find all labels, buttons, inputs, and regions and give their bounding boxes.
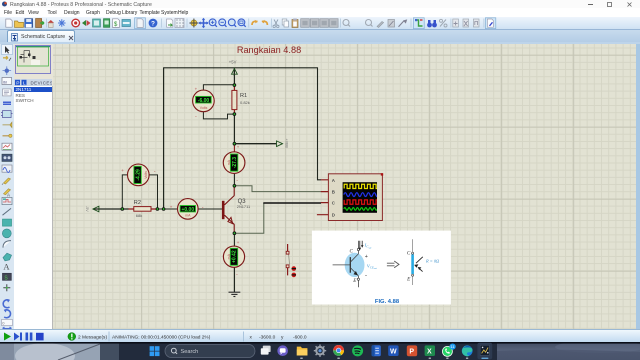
svg-text:-: - bbox=[236, 272, 238, 278]
svg-text:?: ? bbox=[151, 21, 155, 28]
svg-text:68k: 68k bbox=[136, 213, 142, 218]
svg-text:Rangkaian 4.88: Rangkaian 4.88 bbox=[237, 45, 301, 55]
svg-text:+: + bbox=[365, 254, 368, 260]
svg-text:-: - bbox=[195, 113, 197, 119]
svg-text:P: P bbox=[409, 349, 414, 356]
wire left drop to R2 row bbox=[163, 67, 165, 209]
inset implies arrow bbox=[387, 261, 399, 268]
wire voltmeter VM1 minus to R1 bottom node bbox=[203, 111, 234, 119]
svg-text:0.82k: 0.82k bbox=[240, 100, 250, 105]
terminal arrow VBB (right) bbox=[277, 139, 289, 149]
svg-text:A: A bbox=[7, 193, 10, 198]
svg-text:+: + bbox=[195, 87, 198, 92]
wire voltmeter VM2 left branch bbox=[122, 175, 128, 209]
inset current arrows and labels bbox=[359, 241, 377, 279]
wire voltmeter VM1 plus to R1 top node bbox=[203, 85, 234, 91]
svg-text:A: A bbox=[3, 262, 10, 272]
svg-text:+: + bbox=[237, 240, 240, 245]
main area bbox=[0, 44, 640, 329]
voltmeter VM2 (across R2) bbox=[121, 164, 156, 186]
svg-text:B: B bbox=[332, 190, 335, 195]
svg-text:+: + bbox=[170, 204, 173, 209]
svg-text:Search: Search bbox=[181, 349, 199, 355]
menu bar bbox=[0, 8, 640, 17]
svg-text:C: C bbox=[407, 251, 411, 257]
wire VBB node to terminal arrow bbox=[234, 143, 276, 145]
svg-text:-3600.0: -3600.0 bbox=[259, 335, 276, 341]
taskbar bbox=[0, 342, 640, 360]
wire VBB node to ammeter AM1 top bbox=[233, 144, 235, 153]
svg-text:mA: mA bbox=[227, 253, 231, 259]
wire +5V top rail bbox=[164, 67, 318, 69]
ammeter AM2 (emitter current, vertical) bbox=[223, 240, 244, 278]
svg-text:-6.00: -6.00 bbox=[198, 98, 210, 104]
svg-text:+5V: +5V bbox=[229, 60, 237, 65]
scope trace channel C (red square) bbox=[344, 200, 379, 204]
window title bar bbox=[0, 0, 640, 8]
resistor R1 bbox=[232, 85, 250, 114]
terminal arrow -5V (left) bbox=[85, 206, 99, 212]
ammeter AM3 (base current, horizontal) bbox=[170, 199, 204, 220]
left panel: overview minimap + device list bbox=[14, 44, 53, 329]
switch SW (animated, unconnected) bbox=[286, 244, 296, 277]
wire to scope channel C horizontal bbox=[263, 202, 321, 204]
power terminal +5V bbox=[229, 60, 238, 76]
ground bbox=[229, 292, 241, 296]
scope trace channel B (blue sine) bbox=[344, 193, 379, 197]
transistor Q3 2N1711 bbox=[223, 186, 234, 233]
voltmeter VM1 (across R1) bbox=[193, 87, 215, 120]
svg-text:-600.0: -600.0 bbox=[293, 335, 307, 341]
svg-text:X: X bbox=[427, 349, 432, 356]
wire collector node to scope channel B bbox=[234, 186, 321, 192]
status bar bbox=[0, 329, 640, 342]
svg-text:+VBB: +VBB bbox=[284, 139, 288, 149]
svg-text:-5V: -5V bbox=[85, 206, 89, 212]
svg-text:R1: R1 bbox=[240, 93, 247, 99]
svg-text:C: C bbox=[350, 248, 354, 254]
wire emitter node to ammeter AM2 top bbox=[233, 233, 235, 246]
svg-text:+0.42: +0.42 bbox=[232, 250, 238, 263]
wire R1 bottom to VBB node bbox=[233, 114, 235, 144]
junction nodes bbox=[121, 83, 237, 235]
inset transistor symbol with blue circle bbox=[333, 241, 365, 287]
svg-text:DEVICES: DEVICES bbox=[31, 80, 53, 85]
svg-text:+: + bbox=[121, 168, 124, 173]
wire rail to R1 top node bbox=[233, 68, 235, 85]
ammeter AM1 (collector current, vertical) bbox=[223, 144, 245, 183]
svg-text:lbl: lbl bbox=[3, 79, 7, 84]
svg-text:R = 0Ω: R = 0Ω bbox=[425, 258, 440, 263]
svg-text:D: D bbox=[332, 213, 335, 218]
svg-text:-: - bbox=[154, 169, 156, 175]
resistor R2 bbox=[128, 200, 157, 218]
svg-text:x: x bbox=[250, 336, 253, 341]
svg-text:2N1711: 2N1711 bbox=[237, 204, 250, 209]
svg-text:+0.00: +0.00 bbox=[181, 207, 194, 213]
wire R2 right to vertical drop junction bbox=[157, 208, 178, 210]
oscilloscope (4-channel) bbox=[317, 173, 383, 220]
svg-text:-4.29: -4.29 bbox=[135, 169, 141, 181]
svg-text:-: - bbox=[202, 205, 204, 211]
svg-text:Volts: Volts bbox=[200, 106, 208, 110]
wire emitter node to scope channel C (vertical jog) bbox=[234, 203, 263, 233]
white inset panel (FIG. 4.88) bbox=[312, 231, 451, 305]
svg-text:2 Message(s): 2 Message(s) bbox=[78, 335, 107, 341]
svg-text:mA: mA bbox=[185, 213, 191, 217]
svg-text:-27.3: -27.3 bbox=[232, 157, 238, 169]
svg-text:-: - bbox=[365, 273, 367, 279]
svg-text:-: - bbox=[236, 178, 238, 184]
svg-text:mA: mA bbox=[227, 159, 231, 165]
svg-text:Volts: Volts bbox=[144, 171, 148, 179]
wire ammeter AM2 bottom to ground bbox=[233, 267, 235, 292]
svg-text:FIG. 4.88: FIG. 4.88 bbox=[375, 299, 400, 305]
scope trace channel D (green sine) bbox=[344, 208, 378, 211]
svg-text:y: y bbox=[281, 336, 284, 341]
svg-text:R2: R2 bbox=[134, 200, 141, 206]
top toolbar bbox=[0, 17, 640, 29]
left mode toolbar bbox=[0, 44, 14, 329]
wire ammeter AM1 bottom to collector node bbox=[233, 173, 235, 186]
svg-text:W: W bbox=[390, 349, 397, 356]
wire ammeter AM3 right to Q3 base bbox=[198, 208, 222, 210]
wire -5V terminal to R2 left bbox=[93, 208, 128, 210]
wire voltmeter VM2 right branch bbox=[149, 175, 158, 209]
svg-text:ANIMATING: 00:00:01.450000 (CP: ANIMATING: 00:00:01.450000 (CPU load 2%) bbox=[112, 335, 211, 341]
scope trace channel A (yellow square) bbox=[344, 184, 379, 188]
svg-text:+: + bbox=[237, 144, 240, 149]
tab bar bbox=[0, 29, 640, 42]
inset closed-switch equivalent bbox=[406, 239, 440, 285]
wire right drop to scope channel A bbox=[318, 67, 322, 179]
